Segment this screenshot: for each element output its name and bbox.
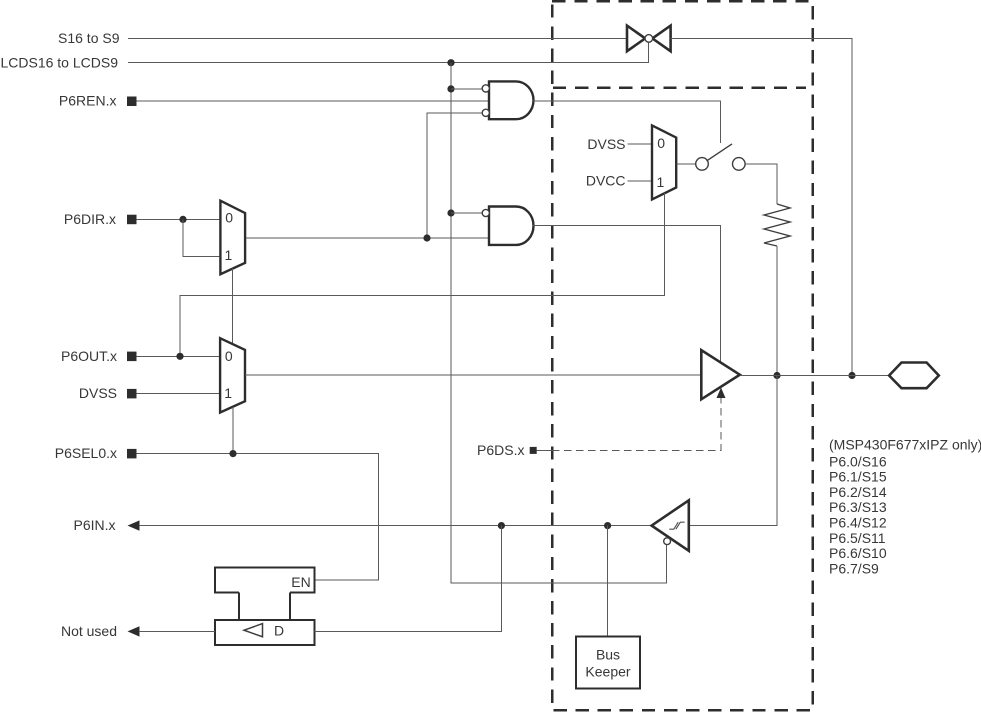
wire P6REN.x [137,100,489,102]
inner dashed divider line [553,86,806,89]
svg-text:P6.4/S12: P6.4/S12 [829,515,887,531]
wire AND1 output to switch control [533,101,720,143]
node AND1 top input junction [447,85,454,92]
wire LCDS16 horizontal [128,42,649,63]
mux U6 P6OUT [220,338,245,412]
wire driver output to pad [740,375,891,377]
d latch box [215,620,315,645]
wire mux U5 select from P6OUT [180,193,665,356]
svg-text:0: 0 [225,348,233,364]
svg-text:(MSP430F677xIPZ only): (MSP430F677xIPZ only) [829,437,981,453]
outer dashed box [552,1,813,710]
arrow P6IN.x [128,520,140,530]
bus keeper box [576,637,640,689]
svg-text:0: 0 [225,209,233,225]
wire S16 right segment [671,38,852,375]
wire Not used [139,630,215,632]
svg-text:Not used: Not used [61,623,117,639]
driver triangle U7 [701,350,740,399]
svg-text:DVSS: DVSS [587,136,625,152]
svg-text:S16 to S9: S16 to S9 [58,30,120,46]
svg-text:DVSS: DVSS [79,385,117,401]
schmitt trigger U8 [652,500,689,551]
wire P6SEL0.x [137,454,379,580]
node AND2 top input junction [447,209,454,216]
wire AND1 top input [451,88,482,90]
transmission gate U1 [627,26,671,52]
mux U5 pull resistor select [652,125,676,199]
svg-text:EN: EN [291,574,310,590]
svg-text:1: 1 [224,385,232,401]
svg-text:P6.2/S14: P6.2/S14 [829,484,887,500]
wire P6OUT.x [137,355,220,357]
wire DVSS stub [628,143,653,145]
and gate U2 [482,81,533,119]
enable latch EN box [215,568,315,620]
svg-text:P6.5/S11: P6.5/S11 [829,530,886,546]
wire mux U6 select [232,407,234,454]
svg-text:1: 1 [657,174,665,190]
node pad junction resistor [773,372,780,379]
svg-text:Keeper: Keeper [585,664,630,680]
wire resistor to pad line [776,246,778,376]
node P6OUT branch [176,353,183,360]
arrow P6DS into driver [717,388,726,399]
svg-text:P6DS.x: P6DS.x [477,442,524,458]
svg-text:1: 1 [225,247,233,263]
wire S16 left segment [128,37,627,39]
wire DVCC stub [628,180,653,182]
svg-text:0: 0 [657,135,665,151]
wire P6IN.x [139,525,652,527]
wire P6DS dashed [552,398,721,450]
svg-text:P6.1/S15: P6.1/S15 [829,469,887,485]
wire mux U3 select [232,269,234,345]
node pad junction S16 [848,372,855,379]
node P6IN buskeeper branch [604,522,611,529]
switch S1 [696,144,745,170]
node P6SEL0 select junction [229,450,236,457]
input square DVSS [127,389,137,399]
wire mux U6 output to driver [245,374,701,376]
svg-text:P6DIR.x: P6DIR.x [64,211,116,227]
svg-text:P6.0/S16: P6.0/S16 [829,453,887,469]
input square P6DIR.x [127,215,137,225]
node AND gates input branch [423,234,430,241]
wire AND2 output to driver enable [533,226,720,362]
wire P6DIR branch to input 1 [183,219,220,256]
input square P6SEL0.x [127,449,137,459]
input square P6REN.x [127,97,137,107]
wire AND2 top input [451,212,482,214]
pad hexagon [889,363,939,389]
node LCDS branch junction [447,59,454,66]
mux U3 P6DIR [220,201,245,275]
svg-text:P6IN.x: P6IN.x [73,517,115,533]
svg-text:P6OUT.x: P6OUT.x [61,348,117,364]
svg-text:LCDS16 to LCDS9: LCDS16 to LCDS9 [0,55,118,71]
node P6IN D branch [498,522,505,529]
svg-text:D: D [274,623,284,639]
input square P6DS.x [530,447,537,454]
arrow Not used [128,626,140,636]
svg-text:P6.6/S10: P6.6/S10 [829,545,887,561]
wire DVSS input [137,393,221,395]
wire P6DIR.x [137,218,220,220]
wire D input from P6IN line [315,526,502,632]
wire LCDS vertical branch [451,63,667,583]
svg-text:P6.3/S13: P6.3/S13 [829,499,887,515]
wire pad to schmitt input [689,376,777,526]
svg-text:P6REN.x: P6REN.x [59,93,117,109]
input square P6OUT.x [127,352,137,362]
and gate U4 [482,207,533,245]
wire mux U3 output [246,237,489,239]
wire switch to resistor [745,164,777,204]
node P6DIR branch [179,216,186,223]
wire P6DS stub [537,449,552,451]
wire mux U5 output [677,163,696,165]
svg-text:DVCC: DVCC [586,173,626,189]
resistor R1 [764,204,790,246]
svg-text:Bus: Bus [596,647,620,663]
wire buskeeper from P6IN line [607,526,609,637]
svg-text:P6SEL0.x: P6SEL0.x [55,445,117,461]
svg-text:P6.7/S9: P6.7/S9 [829,560,879,576]
wire AND1 bottom input branch [427,113,482,238]
